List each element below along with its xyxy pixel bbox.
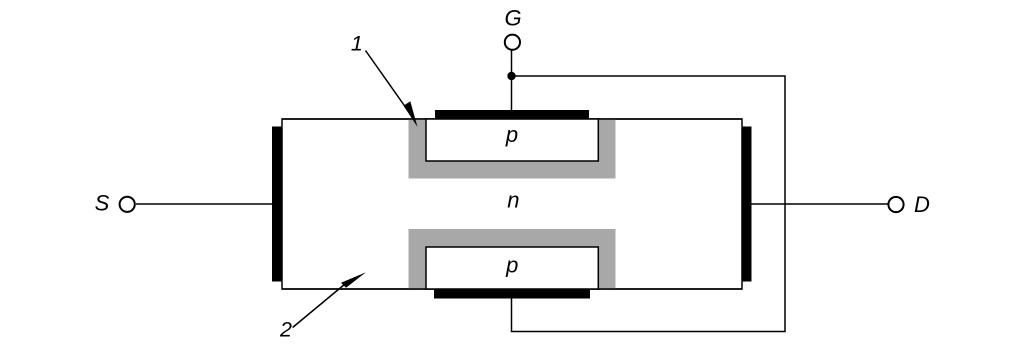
svg-text:p: p [505,122,518,147]
bottom p region [426,247,598,289]
callout arrow 2 shaft [293,284,345,328]
svg-text:G: G [504,6,521,31]
svg-text:1: 1 [351,32,363,56]
svg-text:p: p [505,252,518,277]
wire: D lead [752,203,889,205]
source contact bar (left) [272,127,282,282]
terminal D circle [888,197,903,212]
callout arrow 1 head [404,101,418,127]
wire: G stem [511,50,513,110]
wire: n-region bottom edge redraw [282,288,742,290]
top gate depletion region (gray) [409,120,616,179]
wire: n-region top edge redraw [282,118,742,120]
bottom gate metal contact bar [434,290,590,299]
wire: gate loop to bottom gate [512,76,786,332]
svg-text:D: D [914,192,930,217]
drain contact bar (right) [742,127,751,282]
wire: S lead [136,203,272,205]
svg-text:S: S [95,191,110,216]
svg-text:n: n [507,188,519,213]
callout arrow 1 shaft [366,51,408,111]
n-region body rectangle [282,119,742,289]
terminal G circle [505,35,520,50]
top gate metal contact bar [435,110,589,119]
terminal S circle [120,197,135,212]
junction dot [507,72,515,80]
bottom gate depletion region (gray) [409,229,616,289]
top p region [426,119,598,161]
svg-text:2: 2 [279,318,292,342]
callout arrow 2 head [341,272,366,288]
